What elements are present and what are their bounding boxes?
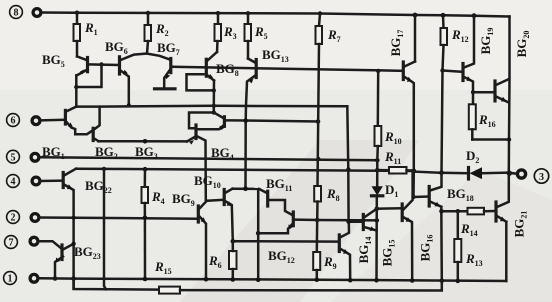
- junction rail A at BG16 emitter: [410, 278, 415, 283]
- transistor BG22: [63, 169, 112, 289]
- transistor BG13: [246, 47, 289, 189]
- resistor R9: [313, 220, 336, 280]
- wire: main node line from input pair to driver column: [100, 105, 348, 108]
- junction BG22 collector line at rail B drop: [102, 167, 106, 171]
- pin 7 circled label: [5, 236, 18, 249]
- junction rail A at BG12 column: [256, 277, 261, 282]
- ground: [155, 87, 176, 90]
- wire: BG7 base line to BG8 and BG13 and BG17 base: [172, 67, 403, 71]
- resistor R6: [208, 241, 237, 279]
- transistor BG23: [55, 244, 101, 279]
- junction pin 5 line at R7/R8 column: [316, 157, 320, 161]
- resistor R11: [377, 149, 414, 174]
- svg-text:4: 4: [11, 177, 16, 188]
- resistor R1: [74, 13, 98, 57]
- pin 3 circled label: [534, 169, 548, 183]
- transistor BG7: [147, 40, 180, 87]
- transistor BG4: [211, 113, 234, 163]
- wire: BG8 base-emitter loop: [187, 74, 214, 90]
- svg-text:8: 8: [14, 8, 19, 19]
- pin 1 circled label: [4, 272, 17, 285]
- junction pin 2 line at BG22 emitter column: [72, 216, 76, 220]
- junction BG14 collector at BG15 base: [346, 220, 350, 224]
- pin 2 circled label: [7, 211, 20, 224]
- junction pin 2 line at R4 column: [143, 216, 148, 221]
- junction R12 column at BG19 base: [440, 68, 444, 72]
- junction BG15 base column at BG22 collector line: [346, 167, 351, 172]
- wire: pin 2 line to BG9 base: [40, 218, 197, 219]
- wire: BG12 base line to R8/R9 junction: [294, 218, 317, 221]
- wire: pin 3 stub: [509, 172, 516, 175]
- wire: pin 5 line to D1/R10/R11 node: [40, 157, 377, 160]
- junction BG22 collector line at R4 top: [143, 167, 148, 172]
- junction rail A at BG15 emitter: [374, 278, 379, 283]
- wire: pin 6 to BG1 base: [41, 119, 64, 122]
- wire: R4 column continues to ground rail: [144, 218, 147, 279]
- pin 4 circled label: [7, 175, 20, 188]
- junction BG4 collector node: [212, 110, 216, 114]
- wire: BG5 emitter down to BG1 collector node: [75, 75, 78, 106]
- junction BG5 base loop: [99, 62, 103, 66]
- svg-text:7: 7: [9, 238, 14, 249]
- junction rail A at R4 column: [143, 277, 148, 282]
- pin 5 circled label: [7, 150, 20, 163]
- wire: BG11 collector drop: [257, 190, 260, 233]
- wire: BG15 base column: [347, 106, 362, 221]
- wire: BG18 emitter column down to ground rail: [440, 207, 443, 281]
- wire: BG12 to BG14 base line: [233, 240, 338, 243]
- diode D1: [372, 182, 399, 199]
- pin 5 terminal: [31, 153, 39, 161]
- pin 8 terminal: [33, 9, 41, 17]
- resistor R7: [316, 14, 341, 45]
- svg-text:2: 2: [11, 213, 16, 224]
- pin 3 terminal: [517, 170, 525, 178]
- junction BG17 emitter column at R11/D2 line: [411, 169, 416, 174]
- pin 2 terminal: [31, 214, 39, 222]
- wire: BG19 emitter node to BG20 base: [473, 91, 494, 94]
- transistor BG18: [411, 171, 473, 207]
- transistor BG17: [388, 15, 415, 171]
- transistor BG1: [42, 107, 93, 161]
- wire: D1 node column: [376, 160, 379, 186]
- resistor R3: [215, 13, 237, 52]
- pin 4 terminal: [32, 177, 40, 185]
- wire: R12 column down to D2 anode line: [442, 71, 443, 173]
- wire: pin 7 to BG23 base: [39, 241, 61, 248]
- resistor R4: [142, 169, 165, 218]
- transistor BG14: [339, 222, 373, 281]
- wire: D2 anode line from R12 column node: [414, 172, 442, 173]
- wire: BG5 base-emitter loop: [76, 65, 101, 88]
- transistor BG11: [259, 176, 292, 215]
- junction rail A at BG14 emitter: [348, 278, 353, 283]
- transistor BG15: [363, 209, 396, 267]
- resistor R15: [154, 259, 180, 294]
- wire: BG8 emitter column down: [213, 81, 216, 113]
- wire: BG5 base to BG6 base: [89, 63, 120, 66]
- junction rail A at R9: [315, 277, 320, 282]
- resistor R2: [145, 13, 169, 53]
- junction dots on top rail: [75, 11, 79, 15]
- wire: top rail corner down to BG20 collector and emitter column to pin 3 node: [508, 17, 511, 173]
- svg-text:1: 1: [8, 274, 13, 285]
- resistor R14: [442, 208, 495, 238]
- junction D2 line at BG18 collector column: [439, 170, 444, 175]
- wire: rail B bottom return: [74, 279, 159, 290]
- wire: BG2/BG3 common emitter rail: [99, 140, 188, 143]
- pin 8 circled label: [10, 6, 23, 19]
- transistor BG10: [194, 173, 233, 241]
- wire: positive supply top rail from pin 8 terminal to top right corner: [42, 13, 510, 17]
- transistor BG9: [172, 191, 207, 279]
- junction R8 bottom node: [315, 218, 320, 223]
- wire: rail B drop from BG22 collector line: [104, 169, 106, 289]
- svg-text:3: 3: [539, 172, 544, 183]
- junction BG12 emitter loop: [256, 231, 261, 236]
- transistor BG2: [93, 128, 118, 161]
- wire: ground rail A from pin 1 across the bottom: [39, 278, 506, 281]
- junction emitter rail to R4 column: [143, 139, 148, 144]
- junction R6 top at BG10 emitter column: [231, 239, 236, 244]
- junction BG4 base line at BG13 emitter column: [243, 118, 248, 123]
- junction R11 left node: [375, 168, 379, 172]
- junction BG4 base line end at R7/R8 column: [316, 119, 321, 124]
- resistor R16: [469, 104, 511, 141]
- transistor BG3: [135, 125, 206, 200]
- wire: pin 4 to BG22 base: [41, 179, 62, 182]
- transistor BG8: [206, 52, 238, 81]
- pin 1 terminal: [30, 274, 38, 282]
- transistor BG5: [42, 52, 88, 75]
- junction BG8 emitter loop: [212, 88, 216, 92]
- junction BG8 emitter at main node line: [212, 104, 216, 108]
- junction rail A at BG9 emitter: [204, 277, 209, 282]
- svg-text:5: 5: [11, 152, 16, 163]
- wire: BG1/BG2 collector link: [76, 107, 99, 130]
- junction rail A at BG22/BG23 column: [71, 276, 76, 281]
- junction rail A at R13: [456, 279, 461, 284]
- junction R13 top at R14 line: [456, 209, 460, 213]
- junction rail A at R6: [231, 277, 236, 282]
- junction BG19 emitter to R16 top and BG20 base: [471, 90, 475, 94]
- pin 6 terminal: [32, 117, 40, 125]
- junction BG5 emitter column: [74, 85, 78, 89]
- junction at D1 column: [375, 218, 380, 223]
- junction BG18 emitter at R14 line: [439, 209, 444, 214]
- wire: R12 bottom node to BG19 base: [443, 71, 462, 72]
- junction D1 column at BG16 base line: [375, 206, 380, 211]
- wire: BG4 base line to R7 column: [225, 120, 318, 121]
- wire: BG21 emitter down and ground rail right corner: [505, 222, 508, 281]
- wire: BG10 collector line: [233, 187, 260, 190]
- wire: BG3 base loop from BG4 collector node: [189, 113, 214, 129]
- resistor R12: [441, 15, 469, 70]
- wire: BG4 emitter link to BG3 bar: [197, 128, 217, 131]
- junction BG23 collector at BG22 emitter column: [71, 242, 75, 246]
- transistor BG19: [463, 16, 495, 105]
- pin 7 terminal: [30, 237, 38, 245]
- svg-text:6: 6: [11, 116, 16, 127]
- wire: R8/R9 node line to D1 cathode column: [317, 219, 377, 222]
- pin 6 circled label: [7, 114, 20, 127]
- resistor R13: [454, 211, 482, 281]
- junction pin 3 node: [507, 171, 512, 176]
- wire: BG12 collector column to ground rail: [257, 233, 260, 279]
- junction pin 5 line end: [375, 158, 380, 163]
- transistor BG16: [377, 171, 435, 281]
- transistor BG20: [495, 31, 531, 103]
- junction rail A at BG18 emitter column and rail B riser: [440, 278, 445, 283]
- transistor BG21: [496, 173, 529, 238]
- wire: BG9 collector to BG10 base: [207, 200, 223, 201]
- wire: BG22 collector line across to BG17 emitter column: [76, 169, 414, 171]
- junction BG23 emitter at pin 1 line: [53, 276, 58, 281]
- junction BG13 emitter column at BG10 collector: [243, 186, 248, 191]
- diode D2: [442, 148, 509, 179]
- transistor BG12: [258, 212, 295, 265]
- wire: D1 cathode column down to ground rail: [375, 196, 378, 280]
- resistor R8: [314, 44, 339, 220]
- wire: rail B from R15 to riser at BG18 column: [180, 281, 442, 291]
- transistor BG6: [105, 39, 146, 107]
- resistor R10: [375, 69, 402, 161]
- resistor R5: [245, 13, 268, 58]
